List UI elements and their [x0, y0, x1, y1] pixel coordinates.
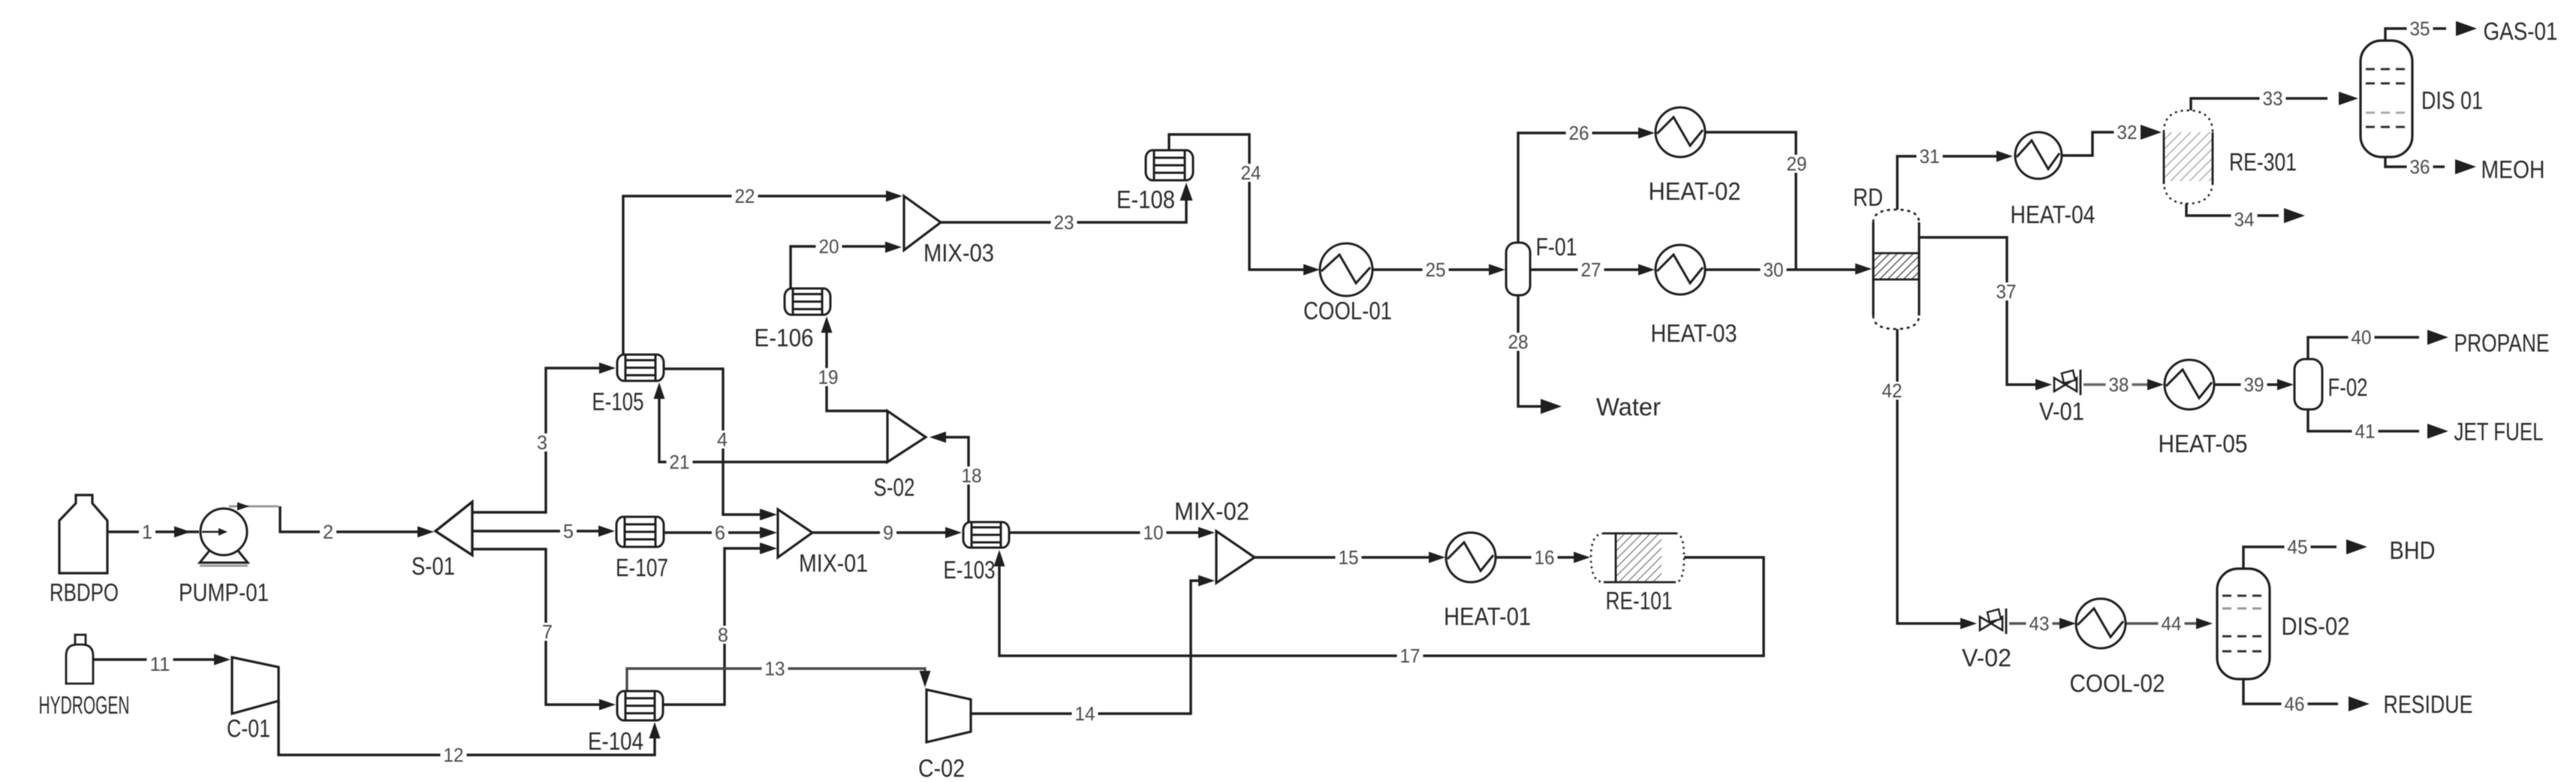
svg-text:34: 34	[2234, 208, 2255, 231]
svg-text:30: 30	[1764, 258, 1784, 281]
svg-text:10: 10	[1143, 521, 1164, 544]
svg-text:8: 8	[718, 623, 728, 646]
svg-text:46: 46	[2285, 693, 2305, 715]
svg-text:E-106: E-106	[755, 324, 814, 352]
svg-text:41: 41	[2355, 420, 2376, 442]
svg-text:3: 3	[537, 431, 547, 454]
svg-text:BHD: BHD	[2390, 536, 2436, 564]
svg-text:43: 43	[2029, 612, 2050, 635]
svg-text:F-01: F-01	[1536, 233, 1577, 261]
svg-text:V-01: V-01	[2039, 397, 2084, 425]
svg-text:E-105: E-105	[592, 388, 644, 415]
svg-text:V-02: V-02	[1962, 644, 2011, 672]
svg-text:14: 14	[1075, 702, 1095, 725]
svg-text:5: 5	[563, 520, 574, 542]
svg-text:27: 27	[1581, 258, 1601, 281]
svg-text:19: 19	[818, 366, 839, 388]
svg-text:16: 16	[1535, 546, 1555, 569]
svg-text:C-01: C-01	[227, 714, 270, 742]
svg-text:MIX-03: MIX-03	[923, 239, 994, 267]
svg-text:MEOH: MEOH	[2481, 155, 2545, 183]
svg-text:HEAT-05: HEAT-05	[2159, 430, 2248, 457]
svg-text:E-108: E-108	[1116, 186, 1175, 213]
svg-text:RESIDUE: RESIDUE	[2384, 690, 2473, 718]
svg-text:32: 32	[2117, 121, 2138, 143]
svg-text:37: 37	[1996, 280, 2017, 303]
svg-text:1: 1	[142, 521, 152, 543]
svg-text:31: 31	[1920, 145, 1940, 168]
svg-text:PUMP-01: PUMP-01	[179, 578, 269, 606]
svg-text:RBDPO: RBDPO	[50, 578, 119, 606]
svg-text:26: 26	[1569, 122, 1589, 144]
svg-text:MIX-01: MIX-01	[799, 549, 868, 577]
svg-text:HYDROGEN: HYDROGEN	[39, 691, 130, 719]
svg-text:HEAT-02: HEAT-02	[1649, 177, 1741, 205]
svg-text:RE-301: RE-301	[2229, 148, 2297, 176]
svg-text:F-02: F-02	[2328, 373, 2368, 401]
svg-text:Water: Water	[1596, 393, 1661, 421]
svg-text:6: 6	[715, 521, 725, 544]
svg-text:23: 23	[1054, 211, 1074, 234]
svg-text:E-107: E-107	[616, 554, 668, 581]
svg-text:2: 2	[323, 521, 333, 543]
svg-text:28: 28	[1508, 331, 1529, 353]
svg-text:15: 15	[1339, 546, 1359, 569]
svg-text:33: 33	[2263, 87, 2283, 110]
svg-text:HEAT-01: HEAT-01	[1444, 602, 1531, 630]
svg-text:HEAT-03: HEAT-03	[1651, 319, 1737, 347]
svg-text:20: 20	[819, 235, 839, 258]
svg-text:36: 36	[2410, 155, 2430, 178]
svg-text:22: 22	[735, 185, 755, 207]
svg-text:PROPANE: PROPANE	[2454, 329, 2550, 357]
svg-text:18: 18	[962, 464, 982, 487]
svg-text:COOL-01: COOL-01	[1303, 297, 1392, 325]
svg-text:JET FUEL: JET FUEL	[2454, 418, 2544, 445]
svg-text:25: 25	[1426, 258, 1446, 281]
svg-text:S-01: S-01	[411, 552, 455, 580]
svg-text:COOL-02: COOL-02	[2070, 669, 2165, 697]
svg-text:29: 29	[1787, 152, 1807, 175]
svg-text:RE-101: RE-101	[1606, 587, 1673, 614]
svg-text:13: 13	[765, 657, 785, 680]
svg-text:38: 38	[2109, 373, 2129, 396]
svg-text:DIS-02: DIS-02	[2282, 612, 2350, 640]
svg-text:E-103: E-103	[944, 556, 996, 584]
svg-text:17: 17	[1400, 645, 1421, 667]
svg-text:E-104: E-104	[588, 727, 643, 755]
svg-text:4: 4	[717, 428, 728, 451]
svg-text:12: 12	[444, 744, 464, 766]
svg-text:39: 39	[2244, 373, 2264, 396]
svg-text:MIX-02: MIX-02	[1174, 497, 1249, 525]
svg-text:21: 21	[670, 451, 690, 473]
svg-text:45: 45	[2288, 536, 2308, 558]
svg-text:GAS-01: GAS-01	[2484, 17, 2558, 45]
svg-text:35: 35	[2410, 17, 2430, 40]
svg-text:44: 44	[2162, 612, 2182, 635]
svg-text:40: 40	[2352, 326, 2372, 349]
svg-text:RD: RD	[1853, 183, 1883, 211]
svg-text:HEAT-04: HEAT-04	[2011, 201, 2095, 228]
svg-text:24: 24	[1241, 162, 1261, 184]
svg-text:7: 7	[542, 620, 553, 643]
svg-text:DIS 01: DIS 01	[2421, 86, 2483, 114]
svg-text:42: 42	[1882, 379, 1903, 402]
svg-text:11: 11	[150, 653, 170, 675]
svg-text:S-02: S-02	[874, 473, 915, 501]
svg-text:C-02: C-02	[918, 754, 965, 782]
svg-text:9: 9	[883, 521, 893, 544]
